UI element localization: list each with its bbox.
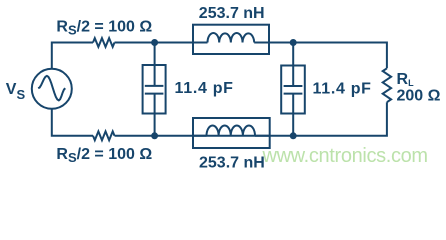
svg-text:253.7 nH: 253.7 nH bbox=[199, 5, 265, 22]
svg-text:11.4 pF: 11.4 pF bbox=[175, 80, 234, 97]
svg-text:www.cntronics.com: www.cntronics.com bbox=[262, 145, 428, 167]
svg-text:253.7 nH: 253.7 nH bbox=[199, 154, 265, 171]
svg-text:200 Ω: 200 Ω bbox=[397, 88, 441, 105]
svg-text:11.4 pF: 11.4 pF bbox=[313, 80, 372, 97]
